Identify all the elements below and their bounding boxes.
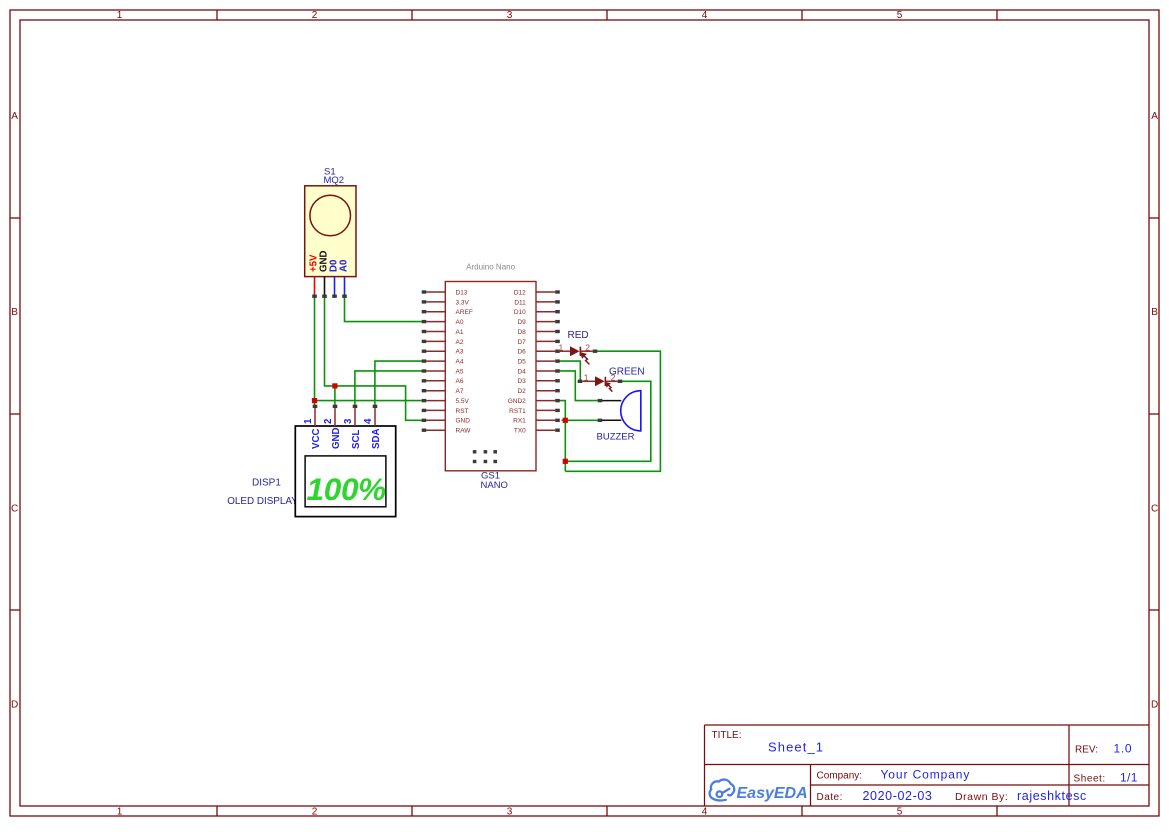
svg-text:D6: D6 xyxy=(517,349,526,356)
svg-text:A6: A6 xyxy=(456,378,464,385)
LED GREEN body xyxy=(578,376,623,386)
svg-text:5.5V: 5.5V xyxy=(456,398,470,405)
OLED pin 4 xyxy=(373,405,378,426)
junction green loop xyxy=(563,459,568,464)
svg-text:A: A xyxy=(11,111,18,122)
svg-text:RED: RED xyxy=(568,330,589,341)
wire GREEN LED loop xyxy=(565,381,651,461)
svg-text:1.0: 1.0 xyxy=(1114,742,1133,756)
OLED body xyxy=(295,426,395,517)
svg-text:A2: A2 xyxy=(456,339,464,346)
sensor S1 body xyxy=(305,186,356,277)
svg-text:A: A xyxy=(1151,111,1158,122)
svg-text:BUZZER: BUZZER xyxy=(597,432,635,443)
svg-text:REV:: REV: xyxy=(1075,745,1098,756)
arduino U GS1 body xyxy=(445,282,536,471)
svg-text:RX1: RX1 xyxy=(513,418,526,425)
svg-text:2: 2 xyxy=(323,419,334,424)
svg-text:D10: D10 xyxy=(514,309,526,316)
svg-text:D3: D3 xyxy=(517,378,526,385)
svg-text:D8: D8 xyxy=(517,329,526,336)
svg-text:D12: D12 xyxy=(514,289,526,296)
svg-text:D4: D4 xyxy=(517,368,526,375)
svg-text:SCL: SCL xyxy=(351,430,362,449)
svg-text:AREF: AREF xyxy=(456,309,473,316)
arduino right pin RST1 xyxy=(536,409,560,412)
arduino left pin RST xyxy=(422,409,446,412)
svg-text:TX0: TX0 xyxy=(514,428,526,435)
svg-text:GND: GND xyxy=(331,427,342,449)
arduino left pin A0 xyxy=(422,320,446,323)
wire D5 to GREEN LED xyxy=(558,361,581,381)
buzzer body xyxy=(621,391,641,431)
svg-text:D13: D13 xyxy=(456,289,468,296)
svg-text:Your Company: Your Company xyxy=(881,768,971,782)
buzzer pin1 xyxy=(598,399,622,402)
ruler numbers bottom xyxy=(117,807,903,818)
svg-text:A7: A7 xyxy=(456,388,464,395)
arduino left pin A3 xyxy=(422,350,446,353)
ruler letters right xyxy=(1151,111,1158,711)
wire D4 to buzzer pin1 xyxy=(558,371,599,401)
sensor S1 circle xyxy=(310,195,351,236)
title block lines xyxy=(705,725,1150,806)
svg-text:RAW: RAW xyxy=(456,428,472,435)
junction +5V xyxy=(312,398,317,403)
wire RED LED loop xyxy=(565,351,660,471)
svg-text:SDA: SDA xyxy=(371,429,382,449)
svg-text:2020-02-03: 2020-02-03 xyxy=(863,789,933,803)
arduino left pin A4 xyxy=(422,359,446,362)
wire +5V vertical to OLED VCC xyxy=(314,296,316,406)
sensor pin squares xyxy=(312,295,347,298)
svg-text:GND: GND xyxy=(456,418,471,425)
buzzer pin2 xyxy=(598,419,622,422)
wire A0 sensor to arduino xyxy=(345,296,425,322)
arduino right pin D8 xyxy=(536,330,560,333)
arduino left pin RAW xyxy=(422,429,446,432)
arduino right pin D9 xyxy=(536,320,560,323)
sensor pin +5V xyxy=(314,277,316,295)
svg-text:B: B xyxy=(11,307,18,318)
ruler ticks bottom xyxy=(217,806,997,816)
svg-text:EasyEDA: EasyEDA xyxy=(737,785,808,802)
arduino right pin D10 xyxy=(536,310,560,313)
svg-text:D: D xyxy=(11,700,18,711)
arduino left pin A2 xyxy=(422,340,446,343)
svg-text:3: 3 xyxy=(507,10,513,21)
svg-text:A1: A1 xyxy=(456,329,464,336)
svg-text:4: 4 xyxy=(363,418,374,424)
ruler ticks left xyxy=(10,218,20,610)
arduino left pin A7 xyxy=(422,389,446,392)
arduino right pin D12 xyxy=(536,290,560,293)
wire GND sensor to arduino xyxy=(325,296,425,420)
arduino icsp dots xyxy=(473,450,497,463)
svg-text:100%: 100% xyxy=(307,471,387,507)
svg-text:RST1: RST1 xyxy=(509,408,526,415)
wire junction to buzzer pin2 xyxy=(562,419,599,421)
ruler ticks top xyxy=(217,10,997,20)
svg-text:3: 3 xyxy=(343,418,354,424)
OLED pin 1 xyxy=(313,405,318,426)
svg-text:D2: D2 xyxy=(517,388,526,395)
sensor pin D0 xyxy=(334,277,336,295)
svg-text:4: 4 xyxy=(702,807,708,818)
arduino right pin D11 xyxy=(536,300,560,303)
wire GND2 down xyxy=(558,401,566,472)
svg-text:RST: RST xyxy=(456,408,469,415)
svg-text:Sheet_1: Sheet_1 xyxy=(768,740,824,755)
OLED pin 2 xyxy=(333,405,338,426)
wire SCL to A5 xyxy=(355,371,424,406)
arduino left pin 3.3V xyxy=(422,300,446,303)
arduino right pin D7 xyxy=(536,340,560,343)
wire GND branch to OLED xyxy=(334,386,336,407)
svg-text:NANO: NANO xyxy=(481,480,508,491)
svg-text:C: C xyxy=(1151,503,1158,514)
svg-text:Arduino Nano: Arduino Nano xyxy=(466,263,515,272)
EasyEDA logo cloud xyxy=(710,780,735,801)
svg-text:Company:: Company: xyxy=(817,771,863,782)
svg-text:A0: A0 xyxy=(339,260,350,272)
svg-text:MQ2: MQ2 xyxy=(324,175,345,186)
junction GND-OLED xyxy=(332,383,337,388)
arduino left pin AREF xyxy=(422,310,446,313)
arduino right pin D4 xyxy=(536,369,560,372)
OLED pin 3 xyxy=(353,405,358,426)
svg-text:3: 3 xyxy=(507,807,513,818)
svg-text:Drawn By:: Drawn By: xyxy=(955,791,1008,803)
svg-text:1/1: 1/1 xyxy=(1120,771,1138,785)
LED RED body xyxy=(558,346,598,356)
svg-text:C: C xyxy=(11,503,18,514)
svg-text:2: 2 xyxy=(312,10,318,21)
svg-text:VCC: VCC xyxy=(311,429,322,449)
arduino right pin RX1 xyxy=(536,419,560,422)
ruler letters left xyxy=(11,111,18,711)
svg-text:5: 5 xyxy=(897,10,903,21)
arduino left pin A1 xyxy=(422,330,446,333)
svg-text:A3: A3 xyxy=(456,349,464,356)
svg-text:A0: A0 xyxy=(456,319,464,326)
svg-text:Date:: Date: xyxy=(817,792,843,803)
svg-text:B: B xyxy=(1151,307,1158,318)
arduino right pin D2 xyxy=(536,389,560,392)
svg-text:5: 5 xyxy=(897,807,903,818)
arduino right pin D3 xyxy=(536,379,560,382)
svg-text:Sheet:: Sheet: xyxy=(1074,774,1106,785)
svg-text:4: 4 xyxy=(702,10,708,21)
svg-text:DISP1: DISP1 xyxy=(252,478,281,489)
svg-text:D9: D9 xyxy=(517,319,526,326)
arduino right pin TX0 xyxy=(536,429,560,432)
ruler numbers top xyxy=(117,10,903,21)
LED GREEN arrows xyxy=(606,383,612,392)
svg-text:2: 2 xyxy=(312,807,318,818)
arduino left pin D13 xyxy=(422,290,446,293)
arduino right pin D6 xyxy=(536,350,560,353)
arduino left pin A6 xyxy=(422,379,446,382)
svg-text:D5: D5 xyxy=(517,359,526,366)
sensor pin A0 xyxy=(344,277,346,295)
arduino left pin A5 xyxy=(422,369,446,372)
wire SDA to A4 xyxy=(375,361,424,406)
svg-text:A4: A4 xyxy=(456,359,464,366)
svg-text:3.3V: 3.3V xyxy=(456,299,470,306)
svg-text:1: 1 xyxy=(117,807,123,818)
OLED screen xyxy=(305,456,386,507)
svg-text:1: 1 xyxy=(303,418,314,424)
svg-text:D11: D11 xyxy=(514,299,526,306)
arduino right pin D5 xyxy=(536,359,560,362)
svg-text:GND2: GND2 xyxy=(508,398,526,405)
svg-text:OLED DISPLAY: OLED DISPLAY xyxy=(227,496,298,507)
sensor pin GND xyxy=(324,277,326,295)
svg-text:A5: A5 xyxy=(456,368,464,375)
svg-text:D7: D7 xyxy=(517,339,526,346)
arduino left pin 5.5V xyxy=(422,399,446,402)
arduino right pin GND2 xyxy=(536,399,560,402)
wire 5V to arduino xyxy=(315,400,425,402)
svg-text:D: D xyxy=(1151,700,1158,711)
svg-text:rajeshktesc: rajeshktesc xyxy=(1017,789,1087,803)
junction RX1 row xyxy=(563,418,568,423)
LED RED arrows xyxy=(581,353,589,364)
svg-text:1: 1 xyxy=(117,10,123,21)
arduino left pin GND xyxy=(422,419,446,422)
ruler ticks right xyxy=(1149,218,1159,610)
svg-text:TITLE:: TITLE: xyxy=(712,730,742,741)
